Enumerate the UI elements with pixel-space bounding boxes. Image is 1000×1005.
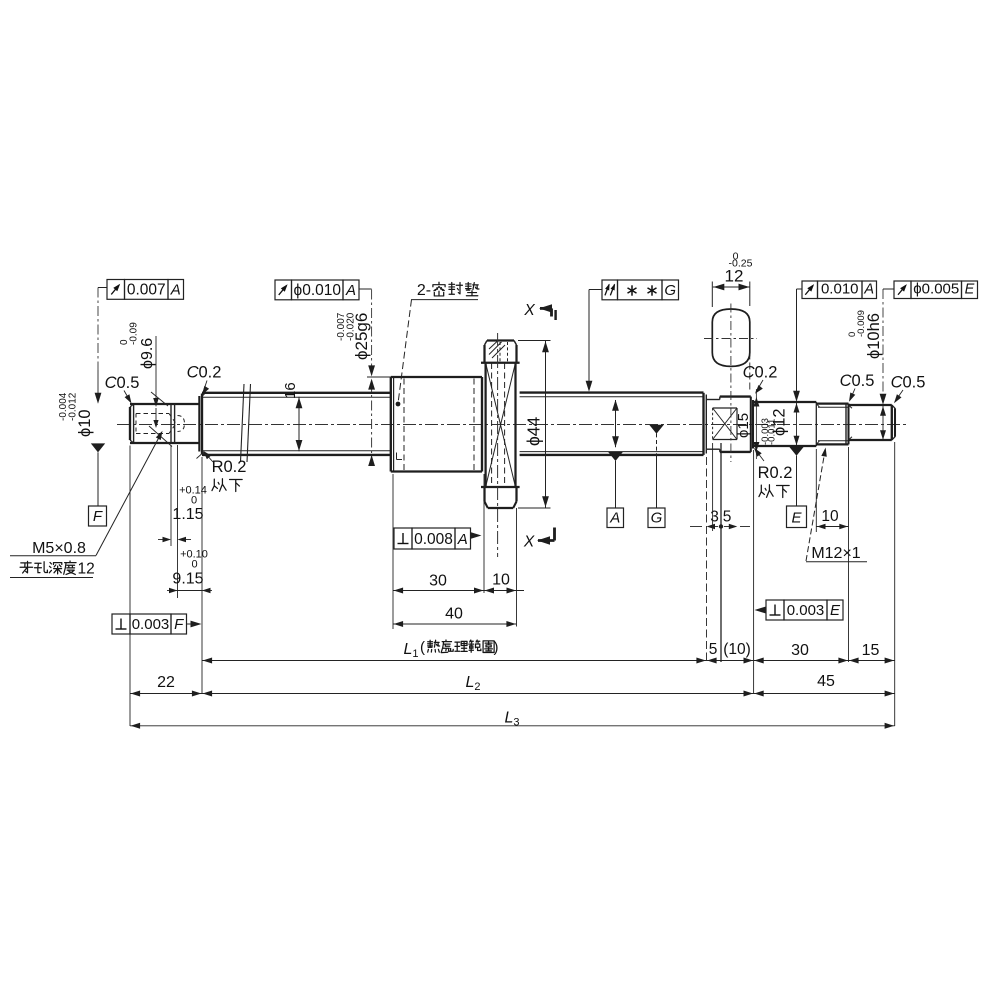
- svg-text:ϕ15: ϕ15: [735, 413, 752, 438]
- svg-text:ϕ9.6: ϕ9.6: [139, 338, 156, 369]
- svg-text:0.003: 0.003: [132, 616, 170, 633]
- svg-text:12: 12: [78, 561, 95, 578]
- svg-text:C0.5: C0.5: [840, 372, 875, 390]
- svg-text:E: E: [791, 510, 802, 527]
- svg-text:M12×1: M12×1: [811, 545, 860, 562]
- svg-text:C0.5: C0.5: [105, 374, 140, 392]
- svg-text:3: 3: [710, 509, 719, 526]
- svg-text:1.15: 1.15: [172, 506, 203, 523]
- svg-text:30: 30: [791, 642, 809, 659]
- svg-text:15: 15: [862, 642, 880, 659]
- svg-text:ϕ10: ϕ10: [76, 409, 94, 437]
- svg-text:(10): (10): [723, 641, 751, 658]
- svg-text:A: A: [863, 282, 874, 298]
- svg-text:X: X: [523, 534, 535, 551]
- svg-text:F: F: [93, 508, 103, 525]
- svg-text:10: 10: [821, 508, 839, 525]
- svg-text:30: 30: [429, 573, 447, 590]
- svg-text:5: 5: [723, 509, 732, 526]
- svg-text:0.007: 0.007: [127, 281, 166, 298]
- svg-text:G: G: [664, 282, 676, 299]
- svg-text:ϕ44: ϕ44: [524, 416, 544, 446]
- svg-text:E: E: [965, 282, 975, 298]
- svg-text:A: A: [345, 282, 356, 299]
- svg-text:A: A: [457, 531, 468, 548]
- svg-text:A: A: [170, 281, 181, 298]
- svg-text:45: 45: [817, 673, 835, 690]
- svg-text:A: A: [609, 510, 620, 527]
- svg-text:0.003: 0.003: [787, 602, 825, 619]
- svg-text:C0.2: C0.2: [743, 364, 778, 382]
- svg-text:5: 5: [709, 641, 718, 658]
- svg-text:0.008: 0.008: [414, 531, 453, 548]
- svg-text:0.010: 0.010: [821, 281, 859, 298]
- svg-text:M5×0.8: M5×0.8: [32, 540, 86, 557]
- svg-text:0: 0: [191, 495, 197, 507]
- svg-text:22: 22: [157, 674, 175, 691]
- svg-text:R0.2: R0.2: [212, 458, 247, 476]
- svg-text:C0.2: C0.2: [187, 364, 222, 382]
- svg-text:0: 0: [191, 559, 197, 571]
- svg-text:R0.2: R0.2: [758, 464, 793, 482]
- svg-text:): ): [494, 639, 499, 656]
- svg-text:F: F: [174, 616, 184, 633]
- svg-text:2-: 2-: [417, 282, 431, 299]
- svg-text:C0.5: C0.5: [891, 374, 926, 392]
- svg-text:10: 10: [492, 572, 510, 589]
- svg-text:9.15: 9.15: [172, 571, 203, 588]
- svg-text:ϕ25g6: ϕ25g6: [352, 313, 371, 360]
- svg-text:(: (: [420, 639, 425, 656]
- svg-text:X: X: [523, 302, 535, 319]
- svg-text:ϕ0.010: ϕ0.010: [294, 282, 342, 299]
- svg-text:E: E: [830, 602, 841, 619]
- svg-text:16: 16: [282, 382, 299, 399]
- svg-text:ϕ10h6: ϕ10h6: [865, 313, 883, 359]
- svg-text:ϕ0.005: ϕ0.005: [913, 281, 959, 298]
- svg-text:G: G: [651, 510, 663, 527]
- svg-text:40: 40: [445, 606, 463, 623]
- svg-text:ϕ12: ϕ12: [771, 408, 789, 436]
- svg-text:12: 12: [725, 267, 744, 286]
- svg-text:-0.09: -0.09: [129, 322, 140, 345]
